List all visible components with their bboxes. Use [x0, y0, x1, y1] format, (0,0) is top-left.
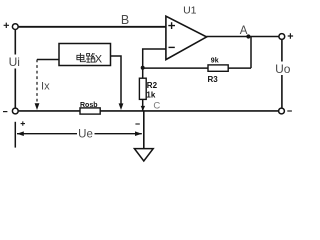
terminal - (bottom-left input): [3, 108, 18, 114]
wire B (top rail): [19, 26, 166, 28]
label 电 (in box): [77, 53, 85, 62]
wire (right vertical between output terminals): [281, 40, 283, 108]
op-amp U1: [166, 16, 207, 59]
svg-text:9k: 9k: [211, 58, 219, 65]
label - (Ue polarity): [135, 123, 139, 125]
svg-text:B: B: [121, 13, 129, 27]
label 路 (in box): [86, 53, 95, 62]
terminal + (top-right output): [279, 33, 293, 39]
Ue dimension arrow left: [17, 131, 77, 136]
svg-text:R3: R3: [208, 75, 219, 84]
junction arrow (R2 lead into rail): [141, 106, 145, 111]
svg-text:Ue: Ue: [78, 128, 93, 140]
box 电路X (circuit X): [59, 44, 111, 66]
ground: [134, 111, 153, 161]
svg-text:Rosb: Rosb: [80, 102, 98, 109]
node Uo label: [275, 62, 291, 77]
terminal - (bottom-right output): [279, 108, 292, 114]
svg-text:X: X: [95, 53, 103, 65]
wire (left vertical between input terminals): [14, 30, 16, 108]
svg-text:U1: U1: [183, 4, 197, 16]
terminal + (top-left input): [4, 23, 19, 30]
label + (Ue polarity): [21, 121, 25, 125]
svg-text:C: C: [153, 100, 160, 111]
node (feedback junction): [141, 66, 145, 70]
wire (op-amp output): [206, 36, 278, 38]
Ue dimension left tick: [14, 122, 16, 148]
wire (R2 bottom lead): [142, 99, 144, 111]
svg-text:1k: 1k: [146, 91, 155, 100]
svg-text:Uo: Uo: [275, 62, 291, 76]
wire (box left lead): [37, 59, 59, 61]
wire (feedback, vertical to output): [250, 37, 252, 69]
node Ui label: [7, 55, 21, 70]
wire (box right lead, down arrow to bottom rail): [111, 56, 124, 110]
svg-text:A: A: [240, 25, 248, 37]
resistor R2: [139, 78, 146, 99]
resistor R3: [208, 65, 228, 71]
node A: [240, 25, 251, 39]
wire (bottom rail): [19, 110, 279, 112]
svg-text:Ix: Ix: [41, 80, 50, 92]
wire (inverting input lead): [143, 49, 166, 78]
Ue dimension arrow right: [95, 131, 142, 136]
wire (feedback, horizontal): [143, 67, 251, 69]
current Ix dashed arrow: [35, 60, 40, 111]
svg-text:R2: R2: [147, 81, 158, 90]
resistor Rosb: [80, 108, 100, 114]
svg-text:Ui: Ui: [9, 55, 20, 69]
